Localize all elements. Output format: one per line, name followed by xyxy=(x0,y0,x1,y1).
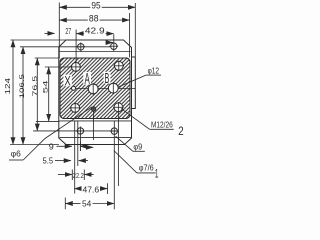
svg-text:A: A xyxy=(85,71,91,88)
port centerline xyxy=(70,88,136,90)
svg-text:95: 95 xyxy=(91,1,100,12)
top band line xyxy=(60,51,131,53)
extension line thread column right xyxy=(117,113,119,186)
note phi7/6, item 1 xyxy=(114,151,159,181)
ext line left xyxy=(58,3,60,58)
thread hole BL M12 xyxy=(70,103,81,114)
extension line bolt column xyxy=(74,121,76,194)
svg-text:φ9: φ9 xyxy=(133,141,142,151)
dim 27 xyxy=(45,27,72,36)
dim 47.6 xyxy=(74,185,107,194)
extension line 47.6 right xyxy=(107,183,109,194)
svg-text:54: 54 xyxy=(82,200,92,209)
thread hole TL M12 xyxy=(71,62,82,73)
note phi12 xyxy=(118,66,161,88)
dim 9 xyxy=(49,142,93,151)
svg-text:5.5: 5.5 xyxy=(43,156,54,165)
ext line right 88 xyxy=(129,13,131,58)
note M12/26, item 2 xyxy=(121,109,184,138)
svg-text:54: 54 xyxy=(43,80,50,94)
dim 22.2 xyxy=(58,171,94,180)
mounting face (hatched) xyxy=(60,58,130,119)
dim 124 xyxy=(5,40,67,145)
hole phi6 xyxy=(91,107,96,112)
svg-text:φ12: φ12 xyxy=(148,66,160,76)
thread hole TR M12 xyxy=(114,61,125,72)
extension line 54 left xyxy=(64,198,66,210)
svg-text:27: 27 xyxy=(65,27,71,36)
bottom band line 2 xyxy=(60,137,132,139)
ext line right 95 xyxy=(134,3,136,57)
label A clear zone xyxy=(83,72,91,85)
dim 5.5 xyxy=(43,156,89,165)
svg-text:22.2: 22.2 xyxy=(73,171,84,180)
svg-text:X: X xyxy=(64,74,70,89)
subplate body outline (chamfered corners) xyxy=(59,40,132,145)
svg-text:φ6: φ6 xyxy=(11,149,21,159)
svg-text:47.6: 47.6 xyxy=(83,185,100,194)
extension line 22.2 right xyxy=(83,170,85,181)
svg-text:88: 88 xyxy=(89,13,99,24)
outer bolt hole BL phi9 xyxy=(76,127,85,152)
svg-text:B: B xyxy=(105,71,110,87)
svg-text:42.9: 42.9 xyxy=(85,26,105,35)
small arrow in top band xyxy=(106,42,113,44)
dim 95 xyxy=(60,1,136,12)
svg-text:106.5: 106.5 xyxy=(19,74,26,99)
extension line outer bolt column right xyxy=(113,121,115,209)
dim 54 left xyxy=(36,67,72,121)
port B phi12 xyxy=(108,82,118,94)
label X clear zone xyxy=(63,75,71,87)
outer bolt hole TL phi9 xyxy=(76,42,85,51)
label B clear zone xyxy=(104,72,111,84)
pilot hole X xyxy=(72,86,76,90)
dim 106.5 xyxy=(19,47,110,145)
extension line 22.2 left xyxy=(71,170,73,181)
note phi9 xyxy=(116,136,145,151)
dim 76.5 xyxy=(32,58,118,131)
svg-text:2: 2 xyxy=(178,124,184,138)
svg-text:φ7/6: φ7/6 xyxy=(139,163,154,173)
svg-text:76.5: 76.5 xyxy=(32,75,39,96)
right locating tab xyxy=(132,57,136,109)
svg-text:9: 9 xyxy=(49,142,55,151)
thread hole BR M12 xyxy=(113,102,124,113)
bottom band line xyxy=(60,120,132,122)
extension line outer bolt BL column xyxy=(79,142,81,152)
outer bolt hole BR phi9 xyxy=(110,128,119,134)
port A phi12 xyxy=(88,83,98,95)
bottom ref line for 124/106.5 xyxy=(10,144,59,146)
svg-text:124: 124 xyxy=(5,78,12,95)
outer bolt hole TR phi9 xyxy=(109,34,118,51)
dim 88 xyxy=(60,13,130,24)
dim 42.9 xyxy=(76,26,114,62)
extension line pilot column xyxy=(77,121,79,166)
note phi6 xyxy=(9,107,92,160)
svg-text:M12/26: M12/26 xyxy=(151,120,173,130)
extension line hole phi6 column xyxy=(93,112,95,141)
dim 54 bottom xyxy=(66,200,115,209)
